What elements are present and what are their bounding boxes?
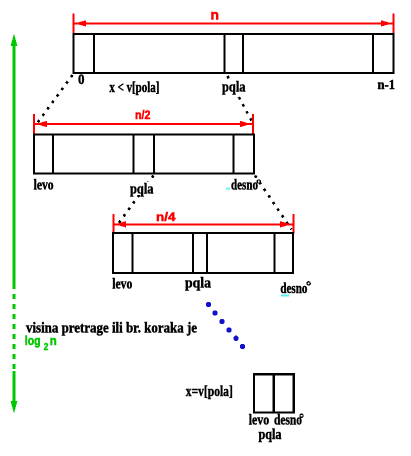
green height arrow: solid lower segment	[13, 371, 16, 402]
svg-text:n: n	[50, 334, 57, 348]
array1 cell line c	[242, 34, 244, 73]
svg-text:pqla: pqla	[185, 276, 211, 292]
ring over desno array4	[300, 414, 303, 417]
svg-text:pqla: pqla	[222, 80, 246, 96]
green height arrow: solid upper segment	[13, 44, 16, 284]
svg-text:pqla: pqla	[130, 182, 154, 198]
svg-text:levo: levo	[34, 177, 54, 193]
svg-text:n/4: n/4	[156, 210, 176, 224]
cyan artifact near desno array2	[226, 188, 230, 191]
array3 cell line c	[206, 233, 208, 273]
dashed connector array1 bottom-left to array2 left	[36, 75, 73, 126]
array2 cell line d	[233, 134, 235, 173]
blue dotted connector array3 pola to array4	[206, 302, 245, 349]
array2 cell line c	[153, 134, 155, 173]
array1 rectangle	[74, 34, 394, 73]
green height arrow: bottom arrowhead	[11, 401, 18, 414]
dashed connector array2 desno to array3 right	[255, 176, 292, 230]
ring over desno array3	[307, 282, 310, 285]
red dimension arrow n/4 over array3	[114, 214, 294, 234]
svg-text:n-1: n-1	[378, 78, 396, 93]
array2 rectangle	[34, 134, 254, 173]
red dimension arrow n/2 over array2	[34, 114, 253, 134]
array3 cell line d	[274, 233, 276, 273]
array4 rectangle	[254, 374, 294, 412]
ring over desno array2	[257, 180, 260, 183]
array2 cell line a	[52, 134, 54, 173]
array3 rectangle	[113, 233, 293, 273]
svg-text:0: 0	[78, 72, 85, 88]
array3 cell line b	[192, 233, 194, 273]
green height arrow: dashed middle segment	[13, 284, 16, 371]
svg-text:x=v[pola]: x=v[pola]	[186, 384, 233, 400]
white backing of pola label array2	[128, 182, 156, 195]
svg-text:x < v[pola]: x < v[pola]	[109, 80, 159, 96]
array4 cell line	[273, 374, 275, 412]
white backing of pola label array1	[220, 80, 247, 95]
array1 cell line d	[372, 34, 374, 73]
green height arrow: top arrowhead	[11, 34, 18, 47]
dashed connector array1 pola to array2 right	[228, 76, 253, 123]
svg-text:log: log	[25, 334, 41, 348]
array3 cell line a	[131, 233, 133, 273]
array1 cell line a	[93, 34, 95, 73]
svg-text:n: n	[211, 7, 220, 23]
svg-text:desno: desno	[231, 178, 258, 194]
dashed connector array2 pola to array3 left	[117, 176, 154, 226]
array2 cell line b	[133, 134, 135, 173]
array1 cell line b	[223, 34, 225, 73]
cyan artifact under desno array3	[281, 294, 289, 296]
svg-text:levo: levo	[112, 277, 132, 293]
svg-text:2: 2	[44, 342, 49, 353]
svg-text:pqla: pqla	[259, 427, 282, 443]
svg-text:n/2: n/2	[135, 108, 151, 122]
red dimension arrow n over array1	[74, 14, 394, 34]
